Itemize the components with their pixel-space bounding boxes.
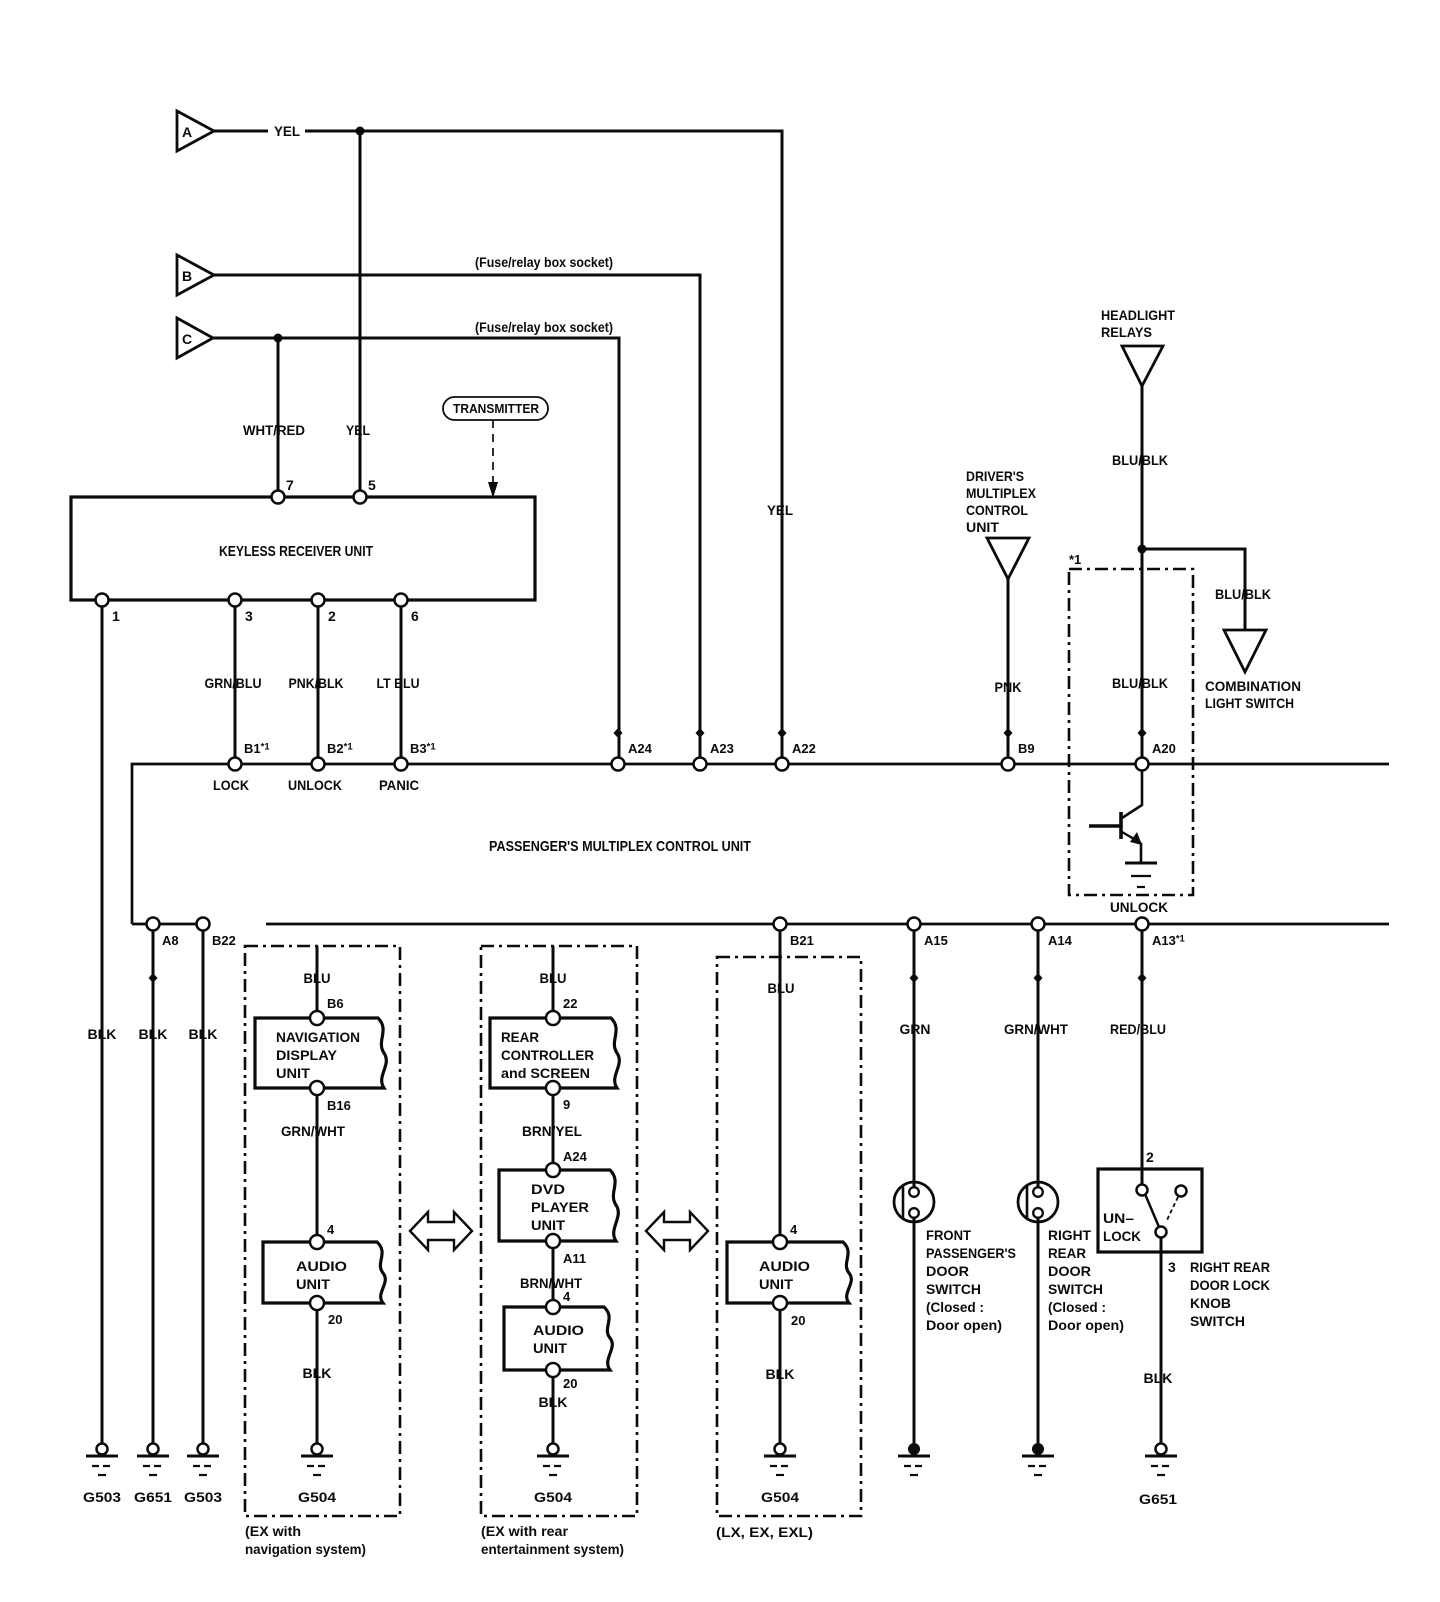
svg-text:DOOR LOCK: DOOR LOCK xyxy=(1190,1277,1270,1293)
svg-text:UNIT: UNIT xyxy=(296,1276,330,1292)
svg-text:20: 20 xyxy=(791,1313,805,1328)
pin 5 terminal xyxy=(354,477,377,504)
svg-text:4: 4 xyxy=(563,1289,571,1304)
navigation display unit box xyxy=(255,1018,386,1088)
passenger's multiplex control unit bus top xyxy=(132,764,1389,924)
svg-text:RELAYS: RELAYS xyxy=(1101,324,1152,340)
svg-text:PASSENGER'S MULTIPLEX CONTROL: PASSENGER'S MULTIPLEX CONTROL UNIT xyxy=(489,838,751,855)
transmitter bubble xyxy=(443,397,548,420)
audio unit box (LX column) xyxy=(727,1242,851,1303)
svg-text:5: 5 xyxy=(368,477,376,493)
combination light switch label xyxy=(1205,678,1301,711)
ground G503 (pin1) xyxy=(83,1444,121,1506)
svg-text:UNIT: UNIT xyxy=(276,1065,310,1081)
terminal B16 xyxy=(310,1081,351,1113)
svg-text:(Closed :: (Closed : xyxy=(926,1299,984,1315)
svg-text:22: 22 xyxy=(563,996,577,1011)
svg-text:UNLOCK: UNLOCK xyxy=(1110,899,1168,915)
svg-text:(Fuse/relay box socket): (Fuse/relay box socket) xyxy=(475,254,613,270)
front passenger's door switch label xyxy=(926,1227,1016,1333)
caption EX with navigation xyxy=(245,1523,366,1557)
svg-text:A22: A22 xyxy=(792,741,816,756)
svg-text:MULTIPLEX: MULTIPLEX xyxy=(966,485,1037,501)
svg-text:G504: G504 xyxy=(534,1489,572,1505)
svg-text:BLU/BLK: BLU/BLK xyxy=(1215,586,1271,602)
wire BRN/YEL xyxy=(552,1095,555,1170)
ground G651 (knob switch) xyxy=(1139,1444,1177,1508)
svg-text:A23: A23 xyxy=(710,741,734,756)
transmitter dashed arrow xyxy=(488,420,498,498)
terminal B22 xyxy=(197,918,236,949)
svg-text:WHT/RED: WHT/RED xyxy=(243,422,305,438)
svg-text:(EX with rear: (EX with rear xyxy=(481,1523,569,1539)
svg-text:CONTROLLER: CONTROLLER xyxy=(501,1047,594,1063)
svg-text:(EX with: (EX with xyxy=(245,1523,301,1539)
wire knob switch BLK to ground xyxy=(1160,1238,1163,1443)
terminal 4 (nav audio) xyxy=(310,1222,335,1249)
audio unit box (rear column) xyxy=(504,1307,612,1370)
svg-text:BLU: BLU xyxy=(768,980,795,996)
svg-text:CONTROL: CONTROL xyxy=(966,502,1028,518)
svg-text:G503: G503 xyxy=(83,1489,121,1505)
svg-text:KEYLESS RECEIVER UNIT: KEYLESS RECEIVER UNIT xyxy=(219,543,373,560)
passenger's multiplex control unit bus bottom xyxy=(132,923,1389,926)
svg-text:G651: G651 xyxy=(134,1489,172,1505)
wire A (YEL) xyxy=(214,131,782,757)
terminal B21 xyxy=(774,918,814,949)
svg-text:UNLOCK: UNLOCK xyxy=(288,777,342,793)
wire to keyless pin 7 xyxy=(277,338,280,497)
wire BLU to navigation B6 xyxy=(316,946,319,1018)
wire keyless pin3 to B1 (GRN/BLU) xyxy=(234,606,237,758)
svg-text:A24: A24 xyxy=(563,1149,588,1164)
wire B (fuse/relay) xyxy=(214,275,700,757)
pin 6 terminal xyxy=(395,594,420,625)
transistor Q1 (unlock driver) xyxy=(1089,770,1142,862)
terminal B6 xyxy=(310,996,344,1025)
svg-text:A15: A15 xyxy=(924,933,948,948)
pin 3 terminal xyxy=(229,594,254,625)
terminal B1 xyxy=(213,741,270,793)
svg-text:DOOR: DOOR xyxy=(926,1263,969,1279)
svg-text:B16: B16 xyxy=(327,1098,351,1113)
svg-text:BLU: BLU xyxy=(540,970,567,986)
node junction BLU/BLK branch xyxy=(1138,545,1147,554)
terminal 20 (nav audio) xyxy=(310,1296,342,1327)
terminal A13 xyxy=(1136,918,1186,949)
svg-text:DVD: DVD xyxy=(531,1181,565,1197)
keyless receiver unit U1 xyxy=(71,497,535,600)
svg-text:YEL: YEL xyxy=(767,502,793,518)
svg-text:AUDIO: AUDIO xyxy=(759,1258,810,1274)
svg-text:1: 1 xyxy=(112,608,120,624)
wire keyless pin2 to B2 (PNK/BLK) xyxy=(317,606,320,758)
svg-text:UN–: UN– xyxy=(1103,1210,1134,1226)
svg-text:BLK: BLK xyxy=(766,1366,795,1382)
wire to keyless pin 5 xyxy=(359,131,362,497)
ground G651 (A8) xyxy=(134,1444,172,1506)
svg-text:(Fuse/relay box socket): (Fuse/relay box socket) xyxy=(475,319,613,335)
svg-text:3: 3 xyxy=(1168,1259,1176,1275)
svg-text:(LX, EX, EXL): (LX, EX, EXL) xyxy=(716,1524,813,1540)
svg-text:entertainment system): entertainment system) xyxy=(481,1541,624,1557)
terminal A15 xyxy=(908,918,948,949)
svg-text:PLAYER: PLAYER xyxy=(531,1199,589,1215)
svg-text:GRN/BLU: GRN/BLU xyxy=(205,675,262,691)
svg-text:(Closed :: (Closed : xyxy=(1048,1299,1106,1315)
svg-text:GRN/WHT: GRN/WHT xyxy=(281,1123,345,1139)
double arrow 2 xyxy=(646,1212,708,1250)
right rear door switch label xyxy=(1048,1227,1124,1333)
wire B21 BLU to audio xyxy=(779,931,782,1242)
wire PNK driver's to B9 xyxy=(1007,579,1010,758)
svg-text:GRN: GRN xyxy=(900,1021,931,1037)
combination light switch triangle xyxy=(1224,630,1266,672)
svg-text:RIGHT: RIGHT xyxy=(1048,1227,1091,1243)
wire BLK rear to ground xyxy=(552,1377,555,1443)
dash-dot box EX with rear entertainment xyxy=(481,946,637,1516)
terminal A14 xyxy=(1032,918,1073,949)
svg-text:G503: G503 xyxy=(184,1489,222,1505)
wire keyless pin1 to ground (BLK) xyxy=(101,606,104,1443)
wire A13 RED/BLU xyxy=(1141,931,1144,1185)
svg-text:SWITCH: SWITCH xyxy=(1190,1313,1245,1329)
headlight relays label xyxy=(1101,307,1175,340)
svg-text:PASSENGER'S: PASSENGER'S xyxy=(926,1245,1016,1261)
svg-text:9: 9 xyxy=(563,1097,570,1112)
svg-text:G504: G504 xyxy=(761,1489,799,1505)
svg-text:A24: A24 xyxy=(628,741,653,756)
terminal B2 xyxy=(288,741,353,793)
terminal A20 xyxy=(1136,741,1176,771)
svg-text:navigation system): navigation system) xyxy=(245,1541,366,1557)
svg-text:B6: B6 xyxy=(327,996,344,1011)
svg-text:YEL: YEL xyxy=(346,422,370,438)
svg-text:*1: *1 xyxy=(1069,552,1081,567)
svg-text:AUDIO: AUDIO xyxy=(296,1258,347,1274)
ground (A15 door switch) xyxy=(898,1443,930,1475)
terminal 20 (LX audio) xyxy=(773,1296,805,1328)
right rear door lock knob switch label xyxy=(1168,1259,1270,1329)
svg-text:BLK: BLK xyxy=(303,1365,332,1381)
svg-text:DRIVER'S: DRIVER'S xyxy=(966,468,1024,484)
svg-text:LOCK: LOCK xyxy=(213,777,249,793)
terminal 20 (rear audio) xyxy=(546,1363,577,1391)
dash-dot option box *1 xyxy=(1069,552,1193,895)
right rear door lock knob switch S3 xyxy=(1098,1149,1202,1252)
terminal B3 xyxy=(379,741,436,793)
svg-text:SWITCH: SWITCH xyxy=(926,1281,981,1297)
svg-text:BRN/YEL: BRN/YEL xyxy=(522,1123,582,1139)
terminal A24 xyxy=(612,741,653,771)
ground G504 (nav) xyxy=(298,1444,336,1506)
svg-text:DISPLAY: DISPLAY xyxy=(276,1047,338,1063)
svg-text:C: C xyxy=(182,331,192,347)
node junction A/5 xyxy=(356,127,365,136)
svg-text:A: A xyxy=(182,124,192,140)
junction diamond A22 xyxy=(778,728,787,738)
svg-text:2: 2 xyxy=(1146,1149,1154,1165)
svg-text:B22: B22 xyxy=(212,933,236,948)
node junction C/7 xyxy=(274,334,283,343)
svg-text:YEL: YEL xyxy=(274,123,300,139)
ground (A14 door switch) xyxy=(1022,1443,1054,1475)
dash-dot box LX EX EXL xyxy=(717,957,861,1516)
svg-text:20: 20 xyxy=(563,1376,577,1391)
dash-dot box EX with navigation xyxy=(245,946,400,1516)
svg-text:BLK: BLK xyxy=(1144,1370,1173,1386)
audio unit box (nav column) xyxy=(263,1242,385,1303)
terminal A11 xyxy=(546,1234,586,1266)
junction diamond A8 xyxy=(149,973,158,983)
svg-text:TRANSMITTER: TRANSMITTER xyxy=(453,401,540,416)
svg-text:DOOR: DOOR xyxy=(1048,1263,1091,1279)
svg-text:B: B xyxy=(182,268,192,284)
terminal A23 xyxy=(694,741,734,771)
dvd player unit box xyxy=(499,1170,618,1241)
svg-text:AUDIO: AUDIO xyxy=(533,1322,584,1338)
headlight relays triangle xyxy=(1122,346,1163,386)
terminal 9 xyxy=(546,1081,570,1112)
svg-text:Door open): Door open) xyxy=(926,1317,1002,1333)
svg-text:A11: A11 xyxy=(563,1251,586,1266)
rear controller and screen box xyxy=(490,1018,619,1088)
pin 2 terminal xyxy=(312,594,337,625)
svg-text:REAR: REAR xyxy=(501,1029,539,1045)
svg-text:A20: A20 xyxy=(1152,741,1176,756)
svg-text:and SCREEN: and SCREEN xyxy=(501,1065,590,1081)
terminal 22 xyxy=(546,996,577,1025)
svg-text:BLU/BLK: BLU/BLK xyxy=(1112,452,1168,468)
svg-text:PNK: PNK xyxy=(995,679,1022,695)
junction diamond A15 xyxy=(910,973,919,983)
terminal A8 xyxy=(147,918,179,949)
svg-text:BLU/BLK: BLU/BLK xyxy=(1112,675,1168,691)
svg-text:20: 20 xyxy=(328,1312,342,1327)
wire BRN/WHT xyxy=(552,1248,555,1307)
svg-text:A14: A14 xyxy=(1048,933,1073,948)
driver's multiplex control unit label xyxy=(966,468,1037,535)
svg-text:Door open): Door open) xyxy=(1048,1317,1124,1333)
ground G504 (LX) xyxy=(761,1444,799,1506)
junction diamond A14 xyxy=(1034,973,1043,983)
svg-text:RED/BLU: RED/BLU xyxy=(1110,1021,1166,1037)
junction diamond A13 xyxy=(1138,973,1147,983)
svg-text:UNIT: UNIT xyxy=(966,519,999,535)
svg-text:G504: G504 xyxy=(298,1489,336,1505)
svg-text:PNK/BLK: PNK/BLK xyxy=(289,675,344,691)
connector A xyxy=(177,111,214,151)
svg-text:SWITCH: SWITCH xyxy=(1048,1281,1103,1297)
svg-text:BLK: BLK xyxy=(189,1026,218,1042)
front passenger's door switch S1 xyxy=(894,1182,934,1224)
wire C (fuse/relay) xyxy=(213,338,619,757)
wire BLK nav audio to ground xyxy=(316,1310,319,1443)
svg-text:BRN/WHT: BRN/WHT xyxy=(520,1275,582,1291)
svg-text:REAR: REAR xyxy=(1048,1245,1086,1261)
terminal 4 (rear audio) xyxy=(546,1289,571,1314)
wire BLU/BLK headlight to A20 xyxy=(1141,386,1144,758)
wire BLK LX to ground xyxy=(779,1310,782,1443)
wire A14 GRN/WHT xyxy=(1037,931,1040,1449)
ground (transistor emitter) xyxy=(1125,863,1157,887)
junction diamond B9 xyxy=(1004,728,1013,738)
junction diamond A20 xyxy=(1138,728,1147,738)
svg-text:7: 7 xyxy=(286,477,294,493)
svg-text:NAVIGATION: NAVIGATION xyxy=(276,1029,360,1045)
right rear door switch S2 xyxy=(1018,1182,1058,1224)
svg-text:BLU: BLU xyxy=(304,970,331,986)
svg-text:G651: G651 xyxy=(1139,1491,1177,1507)
svg-text:LIGHT SWITCH: LIGHT SWITCH xyxy=(1205,695,1294,711)
terminal 4 (LX audio) xyxy=(773,1222,798,1249)
svg-text:HEADLIGHT: HEADLIGHT xyxy=(1101,307,1175,323)
terminal A24 (dvd) xyxy=(546,1149,588,1177)
double arrow 1 xyxy=(410,1212,472,1250)
svg-text:RIGHT REAR: RIGHT REAR xyxy=(1190,1259,1270,1275)
svg-text:2: 2 xyxy=(328,608,336,624)
svg-text:FRONT: FRONT xyxy=(926,1227,971,1243)
pin 7 terminal xyxy=(272,477,295,504)
svg-text:GRN/WHT: GRN/WHT xyxy=(1004,1021,1068,1037)
svg-text:4: 4 xyxy=(327,1222,335,1237)
wire BLU to rear controller 22 xyxy=(552,946,555,1018)
driver's multiplex antenna triangle xyxy=(987,538,1029,579)
caption EX with rear entertainment xyxy=(481,1523,624,1557)
wire A8 to ground (BLK) xyxy=(152,931,155,1443)
junction diamond A23 xyxy=(696,728,705,738)
junction diamond A24 xyxy=(614,728,623,738)
wire keyless pin6 to B3 (LT BLU) xyxy=(400,606,403,758)
wire GRN/WHT nav to audio xyxy=(316,1095,319,1242)
svg-text:LOCK: LOCK xyxy=(1103,1228,1141,1244)
svg-text:UNIT: UNIT xyxy=(759,1276,793,1292)
svg-text:KNOB: KNOB xyxy=(1190,1295,1231,1311)
svg-text:3: 3 xyxy=(245,608,253,624)
wire B22 to ground (BLK) xyxy=(202,931,205,1443)
svg-text:UNIT: UNIT xyxy=(533,1340,567,1356)
svg-text:BLK: BLK xyxy=(539,1394,568,1410)
svg-text:BLK: BLK xyxy=(139,1026,168,1042)
svg-text:LT BLU: LT BLU xyxy=(377,675,420,691)
svg-text:UNIT: UNIT xyxy=(531,1217,565,1233)
svg-text:4: 4 xyxy=(790,1222,798,1237)
wire branch to combination light switch xyxy=(1142,549,1245,630)
ground G503 (B22) xyxy=(184,1444,222,1506)
svg-text:PANIC: PANIC xyxy=(379,777,419,793)
terminal A22 xyxy=(776,741,816,771)
pin 1 terminal xyxy=(96,594,121,625)
svg-text:B21: B21 xyxy=(790,933,814,948)
svg-text:B9: B9 xyxy=(1018,741,1035,756)
terminal B9 xyxy=(1002,741,1035,771)
ground G504 (rear) xyxy=(534,1444,572,1506)
connector B xyxy=(177,255,214,295)
svg-text:A8: A8 xyxy=(162,933,179,948)
connector C xyxy=(177,318,213,358)
svg-text:6: 6 xyxy=(411,608,419,624)
wire A15 GRN xyxy=(913,931,916,1449)
svg-text:COMBINATION: COMBINATION xyxy=(1205,678,1301,694)
svg-text:BLK: BLK xyxy=(88,1026,117,1042)
